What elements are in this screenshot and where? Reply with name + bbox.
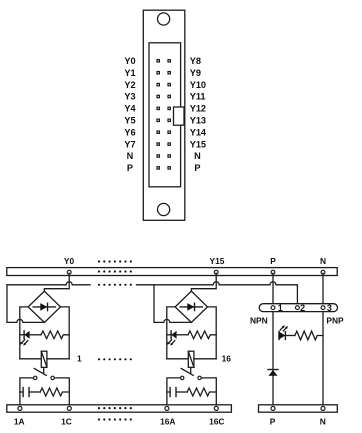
wire Y15 node to bridge	[191, 273, 216, 291]
svg-text:Y3: Y3	[124, 92, 135, 102]
connector J1 outer body	[143, 10, 185, 220]
resistor R17	[295, 331, 323, 340]
wire common drop left of channel 16	[154, 285, 191, 323]
dots row on common wire	[98, 284, 132, 286]
svg-text:PNP: PNP	[326, 315, 344, 325]
wire contact right to terminal 16C	[202, 378, 217, 406]
node Y15 on bus	[214, 270, 218, 274]
wire selector pin3 down to terminal N	[322, 312, 324, 407]
LED D16	[167, 331, 188, 346]
relay contact S16 terminals	[181, 376, 184, 379]
dots row inside top bus	[98, 270, 132, 272]
relay K1 actuator link	[43, 367, 45, 373]
svg-text:16A: 16A	[160, 416, 175, 426]
wire bridge right output rail (ch16)	[208, 307, 217, 359]
common return wire (left segment, hops over Y0 wire)	[7, 282, 90, 285]
node 16C	[214, 406, 218, 410]
svg-text:Y15: Y15	[190, 139, 206, 149]
wire bridge left output rail (ch16)	[167, 307, 175, 359]
wire P node to selector pin 1	[272, 273, 274, 303]
connector polarizing key notch	[174, 107, 185, 125]
wire contact right to terminal 1C	[55, 378, 70, 406]
svg-text:3: 3	[327, 303, 332, 313]
connector mounting hole bottom	[158, 203, 170, 215]
snubber capacitor C16	[167, 388, 187, 397]
svg-text:2: 2	[300, 303, 305, 313]
bridge rectifier B16 diamond	[175, 291, 207, 322]
node P on bus	[271, 270, 275, 274]
selector pin 3	[321, 306, 325, 310]
svg-text:N: N	[320, 416, 326, 426]
svg-text:P: P	[194, 163, 200, 173]
common return wire (right segment, hops over Y15 and P wires, to selector pin 2)	[137, 282, 298, 304]
node N (bottom)	[321, 406, 325, 410]
svg-text:1C: 1C	[61, 416, 72, 426]
svg-text:Y0: Y0	[64, 256, 75, 266]
svg-text:P: P	[270, 416, 276, 426]
wire N node to selector pin 3	[322, 273, 324, 303]
connector mounting hole top	[158, 13, 170, 25]
LED D17 emission arrows	[280, 327, 283, 330]
protection diode D18	[268, 370, 278, 376]
svg-text:Y7: Y7	[124, 139, 135, 149]
node N on bus	[321, 270, 325, 274]
node P (bottom)	[271, 406, 275, 410]
svg-text:1: 1	[278, 303, 283, 313]
svg-text:1: 1	[77, 354, 82, 364]
wire bridge right output rail	[61, 307, 70, 359]
status LED D17	[279, 325, 295, 339]
relay coil K1	[20, 351, 69, 367]
svg-text:Y4: Y4	[124, 104, 136, 114]
LED D1 emission arrows	[25, 341, 28, 344]
svg-text:Y15: Y15	[210, 256, 225, 266]
bridge B16 diode symbol	[180, 303, 202, 311]
svg-text:Y0: Y0	[124, 56, 135, 66]
node 16A	[165, 406, 169, 410]
snubber resistor R1s	[40, 388, 69, 396]
wire selector pin1 down to terminal P	[272, 312, 274, 407]
relay contact S1 arm	[34, 369, 46, 376]
bridge B1 diode symbol	[33, 303, 55, 311]
svg-text:Y9: Y9	[190, 68, 201, 78]
svg-text:Y1: Y1	[124, 68, 135, 78]
connector pin labels right	[190, 56, 207, 173]
resistor R1	[41, 331, 69, 339]
svg-text:P: P	[127, 163, 133, 173]
svg-text:N: N	[320, 256, 326, 266]
svg-text:P: P	[270, 256, 276, 266]
selector pin 2	[296, 306, 300, 310]
top supply bus bar	[7, 268, 337, 276]
svg-text:Y6: Y6	[124, 127, 135, 137]
svg-text:Y2: Y2	[124, 80, 135, 90]
svg-text:Y8: Y8	[190, 56, 201, 66]
node 1C	[67, 406, 71, 410]
wire contact left to terminal 16A	[167, 378, 180, 406]
node 1A	[18, 406, 22, 410]
dots row below bottom bus	[98, 418, 132, 420]
svg-text:Y13: Y13	[190, 116, 206, 126]
svg-text:Y12: Y12	[190, 104, 206, 114]
LED D1 (opto indicator)	[20, 331, 41, 346]
dots row inside bottom bus	[98, 407, 132, 409]
svg-text:Y5: Y5	[124, 116, 135, 126]
resistor R16	[188, 331, 216, 339]
connector pins left column (rows Y0..Y7,N,P)	[157, 60, 159, 169]
node Y0 on bus	[67, 270, 71, 274]
relay coil K16	[167, 351, 216, 367]
wire bridge left output rail	[20, 307, 28, 359]
relay K16 actuator link	[190, 367, 192, 373]
bridge rectifier B1 diamond	[28, 291, 60, 322]
bottom terminal bus bar (channels)	[7, 405, 232, 412]
svg-text:16C: 16C	[209, 416, 224, 426]
snubber resistor R16s	[187, 388, 216, 396]
svg-text:16: 16	[222, 354, 232, 364]
snubber capacitor C1	[20, 388, 40, 397]
svg-text:N: N	[194, 151, 201, 161]
connector pin labels left	[124, 56, 136, 173]
relay contact S16 arm	[181, 369, 193, 376]
svg-text:Y14: Y14	[190, 127, 207, 137]
bottom terminal bus bar (P/N)	[259, 405, 338, 412]
LED D16 emission arrows	[172, 341, 175, 344]
connector pins right column (rows Y8..Y15,N,P)	[168, 60, 170, 169]
svg-text:N: N	[127, 151, 134, 161]
svg-text:1A: 1A	[14, 416, 25, 426]
selector jumper body	[259, 304, 337, 312]
selector pin 1	[271, 306, 275, 310]
svg-text:Y10: Y10	[190, 80, 206, 90]
dots row at relay level	[98, 358, 132, 360]
wire Y0 node to bridge	[44, 273, 69, 291]
relay contact S1 terminals	[34, 376, 37, 379]
dots row above top bus	[98, 260, 132, 262]
wire common drop left of channel 1	[7, 285, 44, 323]
connector shroud inner rect	[149, 43, 181, 187]
svg-text:NPN: NPN	[250, 315, 268, 325]
svg-text:Y11: Y11	[190, 92, 206, 102]
wire contact left to terminal 1A	[20, 378, 33, 406]
